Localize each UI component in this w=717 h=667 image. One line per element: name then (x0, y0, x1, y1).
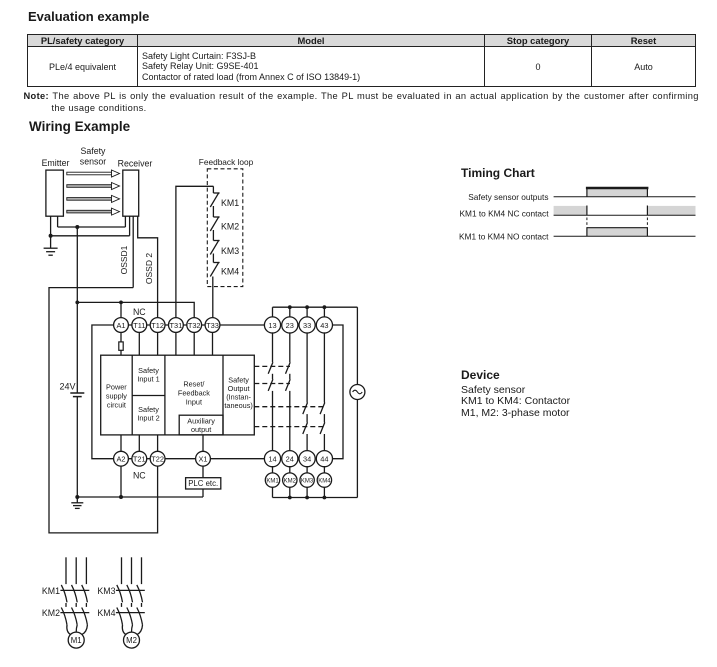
wire: bus drop to 23 (289, 307, 291, 318)
wire: T32 to unit (193, 332, 195, 355)
svg-text:KM1 to KM4 NC contact: KM1 to KM4 NC contact (460, 208, 550, 218)
wire: OSSD1 loop left (49, 288, 158, 533)
svg-text:Safety sensor outputs: Safety sensor outputs (468, 192, 548, 202)
svg-text:T32: T32 (188, 321, 201, 330)
wire: X1 to PLC (202, 466, 204, 478)
junction: A2 to 0V rail (119, 495, 123, 499)
terminal 23 (282, 317, 298, 333)
svg-text:A1: A1 (116, 321, 125, 330)
wire: coil KM4 down (323, 487, 325, 497)
terminal T33 (205, 318, 220, 333)
svg-text:NC: NC (133, 471, 146, 481)
terminal 24 (282, 451, 298, 467)
mechanical link: relay a contacts 33 43 (254, 406, 324, 408)
emitter box (42, 158, 70, 216)
wire: column 23 lower (289, 391, 291, 452)
terminal X1 (196, 451, 211, 466)
wire: M1 phase lines top (66, 557, 86, 584)
wire: 24 to coil KM2 (289, 466, 291, 473)
terminal T21 (132, 451, 147, 466)
svg-text:KM3: KM3 (97, 586, 115, 596)
wire: column 13 middle (272, 374, 274, 380)
wire: column 43 lower (323, 434, 325, 451)
wire: 14 to coil KM1 (272, 466, 274, 473)
heading: Wiring Example (29, 119, 130, 134)
contact: 23 relay b (286, 379, 291, 391)
light beam arrow 4 (67, 208, 120, 215)
svg-text:Safety: Safety (81, 146, 107, 156)
contact KM2 NC (feedback) (210, 206, 239, 232)
wire: PLC down (202, 489, 204, 497)
heading: Timing Chart (461, 166, 535, 180)
contact KM3 3-pole (97, 585, 144, 602)
label: Safety Output (Instantaneous) (224, 376, 252, 411)
contact: 13 relay a (268, 362, 273, 374)
wire: coil KM2 down (289, 487, 291, 497)
wire: bus drop to 13 (272, 307, 274, 318)
wire: bus drop to 33 (306, 307, 308, 318)
terminal T22 (150, 451, 165, 466)
divider: safety input section (164, 355, 166, 435)
svg-text:circuit: circuit (107, 400, 126, 409)
svg-text:supply: supply (106, 391, 127, 400)
svg-text:Input: Input (186, 398, 202, 407)
svg-text:Input 2: Input 2 (137, 413, 159, 422)
contact KM1 3-pole (42, 585, 89, 602)
svg-text:KM2: KM2 (42, 608, 60, 618)
svg-text:T12: T12 (151, 321, 164, 330)
wire: emitter left lead (50, 216, 52, 236)
light beam arrow 3 (67, 195, 120, 202)
wire: column 43 upper (323, 332, 325, 402)
PLC box (186, 478, 221, 489)
svg-text:43: 43 (320, 321, 328, 330)
svg-text:OSSD1: OSSD1 (119, 245, 129, 274)
contact: 43 relay b (320, 422, 325, 434)
svg-text:Receiver: Receiver (118, 159, 153, 169)
heading: Evaluation example (28, 9, 149, 24)
terminal 13 (264, 317, 280, 333)
mechanical link: relay a contacts 13 23 (254, 365, 290, 367)
svg-text:output: output (191, 425, 211, 434)
svg-text:KM1: KM1 (266, 479, 279, 485)
wire: A2 down (120, 466, 122, 497)
wire: receiver lead 1 (124, 216, 126, 227)
contact: 23 relay a (286, 362, 291, 374)
svg-text:A2: A2 (116, 455, 125, 464)
mechanical link: relay b contacts 13 23 (254, 383, 290, 385)
terminal T12 (150, 318, 165, 333)
wire: sensor supply link (58, 226, 126, 228)
table: evaluation (27, 34, 696, 87)
wire: M2 phase lines top (122, 557, 142, 584)
terminal T32 (187, 318, 202, 333)
wire: bus drop to 43 (323, 307, 325, 318)
wire: 44 to coil KM4 (323, 466, 325, 473)
wire: coil KM1 down (272, 487, 274, 497)
wire: A1 drop (120, 302, 122, 317)
svg-text:13: 13 (268, 321, 276, 330)
wire: sensor ground link (51, 235, 130, 237)
svg-text:44: 44 (320, 455, 328, 464)
terminal A2 (114, 451, 129, 466)
wire: 0V rail (77, 496, 203, 498)
ground: sensor (44, 236, 58, 255)
light beam arrow 1 (67, 170, 120, 177)
wire: T12 to unit (157, 332, 159, 355)
battery 24V (59, 382, 84, 397)
timing chart row 1: safety sensor outputs (468, 188, 695, 202)
label: Safety Input 1 (137, 366, 159, 383)
label: Safety Input 2 (137, 405, 159, 422)
timing chart row 3: KM1 to KM4 NO contact (459, 228, 695, 242)
wire: 34 to coil KM3 (306, 466, 308, 473)
wire: M2 feeders converge (122, 625, 142, 635)
svg-text:14: 14 (268, 455, 276, 464)
svg-text:T21: T21 (133, 455, 146, 464)
wire: unit to T22 (157, 435, 159, 452)
wire: coil return bus (273, 497, 358, 499)
terminal T31 (169, 318, 184, 333)
svg-text:KM1: KM1 (42, 586, 60, 596)
svg-text:M2: M2 (126, 636, 137, 645)
svg-text:24V: 24V (59, 382, 75, 392)
wire: receiver lead 2 (129, 216, 131, 236)
ground: supply (71, 497, 83, 508)
svg-text:KM1 to KM4 NO contact: KM1 to KM4 NO contact (459, 231, 549, 241)
junction: return bus KM3 (305, 496, 309, 500)
junction: return bus KM2 (288, 496, 292, 500)
svg-text:Input 1: Input 1 (137, 375, 159, 384)
contact: 33 relay b (303, 422, 308, 434)
svg-text:M1: M1 (71, 636, 82, 645)
svg-text:24: 24 (286, 455, 294, 464)
auxiliary output box (179, 415, 223, 435)
contact KM3 NC (feedback) (210, 230, 239, 256)
svg-text:34: 34 (303, 455, 311, 464)
contact KM1 NC (feedback) (210, 186, 239, 208)
wire: OSSD2 lead (138, 216, 158, 318)
wire: A1 to A2 left link (92, 325, 114, 459)
junction: bus over 33 (305, 305, 309, 309)
wire: T31 to feedback loop (176, 186, 214, 317)
wire: column 33 lower (306, 434, 308, 451)
junction: A1 tap (119, 301, 123, 305)
wire: M2 phase lines middle (122, 603, 142, 607)
wire: column 33 upper (306, 332, 308, 402)
wire: column 23 middle (289, 374, 291, 380)
wire: M1 phase lines middle (66, 603, 86, 607)
junction: bus over 23 (288, 305, 292, 309)
wire: output top bus (273, 306, 358, 308)
wire: T31 to unit (175, 332, 177, 355)
svg-text:T31: T31 (170, 321, 183, 330)
contact KM2 3-pole (42, 608, 89, 625)
terminal 34 (299, 451, 315, 467)
svg-text:23: 23 (286, 321, 294, 330)
contact KM4 3-pole (97, 608, 144, 625)
svg-text:KM2: KM2 (221, 222, 239, 232)
wire: T11 to unit (138, 332, 140, 355)
terminal 33 (299, 317, 315, 333)
svg-text:Reset/: Reset/ (183, 380, 205, 389)
svg-text:T33: T33 (206, 321, 219, 330)
svg-text:Power: Power (106, 382, 127, 391)
wire: aux output to X1 (202, 435, 204, 452)
label: Power supply circuit (106, 382, 127, 409)
svg-text:Feedback loop: Feedback loop (199, 157, 254, 167)
svg-text:KM2: KM2 (284, 479, 297, 485)
contact: 43 relay a (320, 403, 325, 415)
wire: AC source top (356, 307, 358, 384)
svg-text:KM3: KM3 (301, 479, 314, 485)
svg-text:taneous): taneous) (224, 401, 252, 410)
wire: lower terminal row links T22 to X1 to 14 (121, 458, 273, 460)
svg-text:KM4: KM4 (97, 608, 115, 618)
motor M1 (68, 632, 84, 648)
wire: column 13 upper (272, 332, 274, 362)
terminal 43 (316, 317, 332, 333)
coil KM4 (317, 473, 331, 487)
wire: A1 to fuse (120, 332, 122, 342)
svg-text:KM1: KM1 (221, 198, 239, 208)
heading: Device (461, 368, 500, 382)
wire: column 43 middle (323, 414, 325, 422)
feedback loop dashed box (207, 169, 243, 287)
wire: coil KM3 down (306, 487, 308, 497)
wire: column 33 middle (306, 414, 308, 422)
wire: column 23 upper (289, 332, 291, 362)
svg-text:KM4: KM4 (318, 479, 331, 485)
svg-text:33: 33 (303, 321, 311, 330)
wire: unit to T21 (138, 435, 140, 452)
divider: safety output section (222, 355, 224, 435)
light beam arrow 2 (67, 183, 120, 190)
svg-text:PLC etc.: PLC etc. (188, 479, 218, 488)
wire: +24V feed to A1 and T32 (77, 302, 194, 317)
wire: OSSD1 lead down (132, 216, 134, 287)
AC source (350, 385, 365, 400)
wire: fuse to unit (120, 350, 122, 355)
receiver box (118, 159, 153, 217)
svg-text:KM3: KM3 (221, 246, 239, 256)
junction: supply rail tap (75, 225, 79, 229)
wire: 24V positive rail vertical (76, 227, 78, 393)
wire: feedback loop to T33 (212, 277, 214, 318)
wire: column 13 lower (272, 391, 274, 452)
wire: unit to A2 (120, 435, 122, 452)
note text (24, 91, 699, 101)
fuse (119, 342, 123, 350)
svg-text:T22: T22 (151, 455, 164, 464)
timing chart link dashes (587, 218, 648, 229)
timing chart row 2: KM1 to KM4 NC contact (460, 206, 696, 219)
wire: emitter right lead (57, 216, 59, 227)
svg-text:NC: NC (133, 307, 146, 317)
wire: upper terminal row links and T33 to 13 (121, 324, 273, 326)
wire: T33 to unit (212, 332, 214, 355)
label: Reset/Feedback Input (178, 380, 210, 407)
device list text (461, 385, 570, 420)
svg-text:sensor: sensor (80, 157, 106, 167)
coil KM2 (283, 473, 297, 487)
junction: bus over 43 (323, 305, 327, 309)
junction: emitter ground (49, 234, 53, 238)
terminal A1 (114, 318, 129, 333)
divider: power supply section (131, 355, 133, 435)
label: Auxiliary output (187, 417, 215, 435)
terminal 44 (316, 451, 332, 467)
terminal T11 (132, 318, 147, 333)
wire: battery negative down (76, 397, 78, 497)
relay unit G9SE outline (101, 355, 255, 435)
terminal 14 (264, 451, 280, 467)
coil KM1 (265, 473, 279, 487)
label: Safety sensor (80, 146, 106, 167)
svg-text:Feedback: Feedback (178, 389, 210, 398)
contact: 33 relay a (303, 403, 308, 415)
contact: 13 relay b (268, 379, 273, 391)
wire: M1 feeders converge (67, 625, 88, 635)
motor M2 (124, 632, 140, 648)
wire: AC source bottom (356, 400, 358, 498)
svg-text:X1: X1 (198, 455, 207, 464)
coil KM3 (300, 473, 314, 487)
mechanical link: relay b contacts 33 43 (254, 426, 324, 428)
junction: return bus KM4 (323, 496, 327, 500)
svg-text:Emitter: Emitter (42, 158, 70, 168)
svg-text:KM4: KM4 (221, 267, 239, 277)
divider: safety input 1/2 (132, 395, 165, 397)
svg-text:T11: T11 (133, 321, 145, 330)
wire: 43 to 44 bypass (332, 325, 343, 459)
contact KM4 NC (feedback) (210, 254, 239, 277)
junction: +24V rail (75, 301, 79, 305)
junction: battery to ground (75, 495, 79, 499)
svg-text:OSSD 2: OSSD 2 (144, 253, 154, 284)
